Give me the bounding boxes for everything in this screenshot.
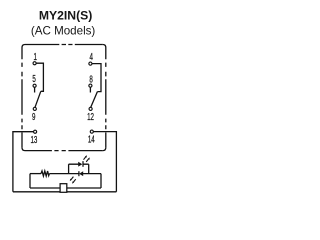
wire: pole A movable arm to pin 9 — [35, 91, 41, 107]
LED D1 emission arrows — [84, 155, 90, 162]
terminal pin 5 — [33, 84, 36, 87]
svg-text:4: 4 — [89, 51, 93, 63]
LED block: left side riser — [68, 164, 70, 173]
relay enclosure: top-right corner — [103, 45, 106, 48]
svg-text:MY2IN(S): MY2IN(S) — [39, 8, 93, 22]
wire: pole B movable arm to pin 12 — [91, 92, 98, 108]
wire: pole B fixed contact from pin 4 (L-shape) — [92, 64, 101, 92]
svg-text:1: 1 — [33, 50, 37, 62]
svg-text:5: 5 — [32, 73, 36, 85]
terminal pin 1 — [33, 62, 36, 65]
LED D1 (upper, pointing right) triangle — [78, 162, 82, 167]
wire: indicator rail left of resistor — [30, 173, 41, 175]
LED D2 (lower, pointing left) triangle — [79, 171, 83, 176]
terminal pin 13 — [34, 130, 37, 133]
wire: indicator branch left drop — [29, 174, 31, 188]
LED D2 emission arrows — [70, 177, 76, 184]
wire: lower branch through LED2 — [69, 173, 101, 175]
coil (rectangle) — [60, 184, 67, 193]
wire: indicator rail resistor to LED block — [49, 173, 68, 175]
svg-text:9: 9 — [32, 110, 36, 122]
terminal pin 8 — [89, 84, 92, 87]
relay enclosure: bottom edge (phantom dashes) — [25, 150, 103, 152]
relay enclosure: top-left corner — [22, 45, 25, 48]
svg-text:12: 12 — [87, 110, 94, 122]
LED block: top branch wire — [69, 163, 89, 165]
wire: right rail up to coil terminal 14 — [93, 132, 116, 192]
svg-text:8: 8 — [89, 73, 93, 85]
terminal pin 12 — [89, 107, 92, 110]
relay enclosure: bottom-right corner — [103, 148, 106, 151]
wire: inner bottom rail — [30, 187, 101, 189]
relay enclosure phantom outline: top edge — [25, 44, 103, 46]
terminal pin 14 — [90, 130, 93, 133]
svg-text:14: 14 — [88, 133, 95, 145]
wire: bottom outer rail — [13, 191, 117, 193]
LED D1 cathode bar — [82, 161, 84, 167]
svg-text:(AC Models): (AC Models) — [31, 25, 96, 38]
LED D2 cathode bar — [78, 171, 80, 176]
terminal pin 4 — [89, 62, 92, 65]
wire: pole B NO stub below pin 8 — [89, 87, 91, 92]
resistor R (zigzag) — [41, 171, 49, 176]
LED block: right side riser — [88, 164, 90, 173]
terminal pin 9 — [33, 107, 36, 110]
wire: pole A NO stub below pin 5 — [34, 87, 36, 92]
relay enclosure: left edge (phantom dashes) — [21, 48, 23, 148]
wire: indicator branch right drop — [100, 174, 102, 188]
relay enclosure: right edge (phantom dashes) — [105, 48, 107, 148]
svg-text:13: 13 — [30, 133, 37, 145]
relay enclosure: bottom-left corner — [22, 148, 25, 151]
wire: pole A fixed contact from pin 1 (L-shape) — [36, 63, 43, 91]
wire: coil terminal 13 to left rail — [13, 132, 34, 192]
